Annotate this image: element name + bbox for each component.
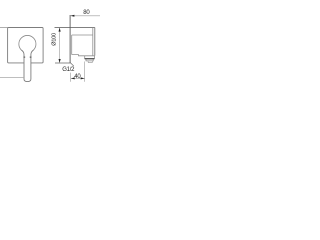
front view: lever seam tick left <box>24 56 26 58</box>
side view: body bottom stepped edge <box>72 55 95 56</box>
side view: bottom edge / extension line <box>55 62 71 64</box>
side view: body front edges <box>92 28 94 56</box>
side view: wall line and plate face <box>69 15 71 63</box>
dimension 40 with arrows and label <box>70 73 72 82</box>
wire: plate top extension to left edge <box>0 27 8 29</box>
side view: body inner top edge <box>72 34 93 36</box>
dimension 80 with arrow and label <box>70 15 100 17</box>
front view: lever handle <box>22 50 34 82</box>
svg-text:Ø100: Ø100 <box>52 33 58 46</box>
svg-text:G1/2: G1/2 <box>62 67 75 73</box>
dimension height with arrows <box>59 28 61 63</box>
front view: lever seam tick right <box>30 56 32 58</box>
svg-text:40: 40 <box>74 74 81 80</box>
front view: escutcheon circle <box>19 35 36 52</box>
side view: top edge / extension line <box>55 27 95 29</box>
side view: knob stack below body <box>85 56 95 59</box>
front view: square wall plate <box>8 28 44 63</box>
wire: lever-bottom reference line to left edge <box>0 77 24 79</box>
svg-text:80: 80 <box>83 10 90 16</box>
